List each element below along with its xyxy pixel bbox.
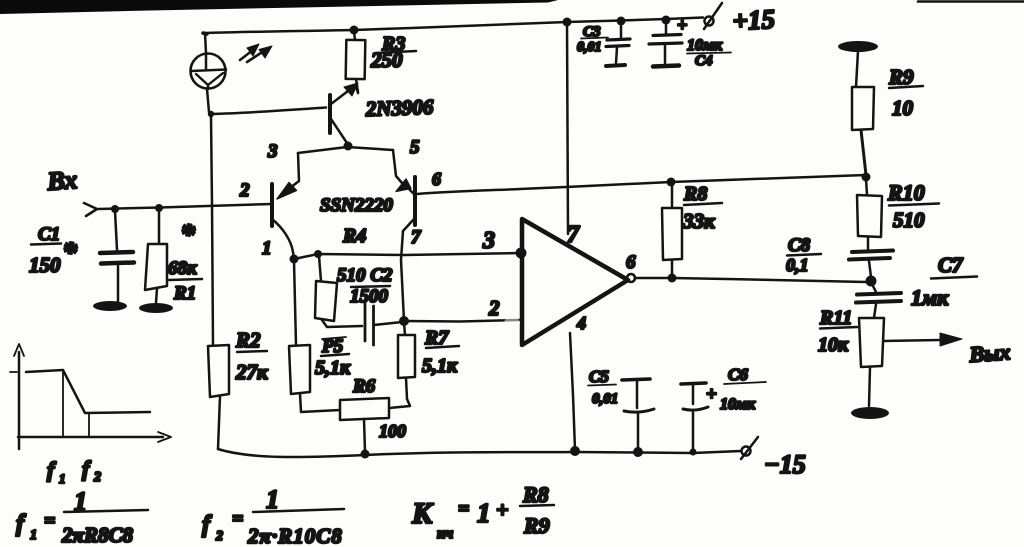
label R3 250 xyxy=(370,33,416,72)
op-amp U1 body xyxy=(522,219,628,345)
svg-text:3: 3 xyxy=(482,228,495,254)
capacitor C3 end bar xyxy=(606,65,625,66)
svg-text:7: 7 xyxy=(411,227,422,248)
svg-text:2: 2 xyxy=(239,180,250,201)
svg-text:−15: −15 xyxy=(764,450,806,479)
wire LED top stub xyxy=(205,33,206,53)
scan artifact top bar xyxy=(0,0,558,14)
node input-C1 xyxy=(111,205,119,213)
label R9 10 xyxy=(888,65,923,120)
capacitor C7 lead bottom xyxy=(874,304,876,318)
graph f2 marker xyxy=(88,413,90,437)
ground C1 xyxy=(93,301,127,311)
resistor R3 lead bottom xyxy=(356,79,358,92)
svg-text:510: 510 xyxy=(893,208,925,232)
svg-text:R11: R11 xyxy=(819,307,852,329)
resistor R4-510 body xyxy=(315,281,337,321)
node C6 xyxy=(690,449,697,456)
svg-text:f: f xyxy=(47,457,57,482)
resistor R8 bottom lead xyxy=(671,260,674,276)
LED light arrow 1 xyxy=(240,44,259,60)
svg-text:2: 2 xyxy=(93,470,101,485)
LED D1 cathode chord xyxy=(191,70,226,72)
svg-text:0,1: 0,1 xyxy=(786,255,809,275)
node C5 xyxy=(633,447,643,457)
wire C2 to node xyxy=(374,322,402,325)
svg-text:R4: R4 xyxy=(342,225,366,247)
svg-text:SSN2220: SSN2220 xyxy=(320,195,393,216)
svg-text:1: 1 xyxy=(30,528,37,543)
wire pin6 feedback line xyxy=(417,175,866,194)
label C7 1мк xyxy=(911,253,977,310)
wire SSM top box xyxy=(298,147,393,153)
svg-text:2N3906: 2N3906 xyxy=(364,95,434,121)
capacitor C4 lead xyxy=(665,22,668,34)
svg-text:150: 150 xyxy=(29,253,61,277)
capacitor C1 top lead xyxy=(115,211,117,250)
resistor R2 bottom lead xyxy=(218,396,220,449)
ground R11 xyxy=(851,407,889,419)
svg-text:+: + xyxy=(496,497,509,522)
capacitor C5 top plate xyxy=(622,379,650,380)
ground R1 xyxy=(139,303,173,313)
supply stub R9 xyxy=(838,41,878,52)
svg-text:+15: +15 xyxy=(732,4,776,36)
resistor R1 top lead xyxy=(158,210,161,244)
resistor R3 lead top xyxy=(354,32,355,40)
transistor Q1 2N3906 bar xyxy=(328,95,332,133)
svg-text:=: = xyxy=(44,510,55,532)
capacitor C8 plates xyxy=(849,251,893,260)
node emitter-left junction xyxy=(290,255,299,264)
capacitor C4 plates xyxy=(649,35,682,45)
resistor R5 bottom lead xyxy=(300,394,340,412)
node R3 top xyxy=(350,26,359,35)
svg-text:R8: R8 xyxy=(522,482,549,507)
svg-text:10мк: 10мк xyxy=(720,396,756,413)
svg-text:10: 10 xyxy=(892,96,914,120)
capacitor C6 bottom plate xyxy=(683,407,708,410)
label 510 C2 xyxy=(337,265,393,307)
svg-text:10мк: 10мк xyxy=(687,37,723,54)
wire LED junction to 2N3906 base xyxy=(211,108,326,115)
svg-text:С7: С7 xyxy=(938,253,964,277)
node feedback-R9-R10 xyxy=(862,173,871,182)
resistor R7 top lead xyxy=(404,323,405,335)
transistor Q1 collector xyxy=(331,119,347,143)
graph tick xyxy=(10,371,17,373)
svg-text:6: 6 xyxy=(626,252,636,273)
LED D1 circle xyxy=(191,54,226,89)
node top-left corner xyxy=(203,33,207,34)
svg-text:100: 100 xyxy=(379,421,406,441)
LED D1 inner lead xyxy=(206,53,208,89)
wire pin3 line to op-amp xyxy=(294,253,521,259)
svg-text:68к: 68к xyxy=(168,258,198,279)
transistor Q2b bar xyxy=(413,177,417,225)
formula f1 xyxy=(16,487,148,547)
resistor R9 top lead xyxy=(856,51,858,87)
label R7 5,1к xyxy=(422,327,459,377)
wire op-amp output xyxy=(635,278,866,282)
resistor R6 body xyxy=(340,398,389,420)
svg-text:2: 2 xyxy=(488,296,500,320)
svg-text:+: + xyxy=(677,15,687,35)
capacitor C3 lead xyxy=(620,23,623,39)
graph x-axis xyxy=(18,432,171,442)
transistor Q2a arrow xyxy=(277,183,297,200)
capacitor C5 stem xyxy=(636,381,639,408)
svg-text:К: К xyxy=(411,497,434,530)
svg-text:С8: С8 xyxy=(788,235,811,256)
resistor R7 body xyxy=(398,335,415,378)
svg-text:2: 2 xyxy=(215,529,223,544)
capacitor C4 tail xyxy=(664,45,667,63)
node output-R8 xyxy=(668,274,677,283)
capacitor C5 lead xyxy=(637,413,640,451)
svg-text:5,1к: 5,1к xyxy=(422,355,458,377)
svg-text:R10: R10 xyxy=(887,180,925,205)
svg-text:R6: R6 xyxy=(352,376,376,397)
svg-text:1500: 1500 xyxy=(350,286,389,307)
label R8 33к xyxy=(682,183,722,233)
svg-text:+: + xyxy=(706,384,717,405)
wire pin2 to op-amp xyxy=(404,320,519,322)
svg-text:R1: R1 xyxy=(173,283,196,304)
svg-text:R8: R8 xyxy=(683,183,707,205)
svg-text:4: 4 xyxy=(576,313,586,333)
label C8 0,1 xyxy=(786,235,821,275)
resistor R10 top lead xyxy=(866,179,867,195)
capacitor C1 bottom lead xyxy=(117,266,120,302)
resistor R2 body xyxy=(208,345,229,397)
label C1 150 xyxy=(29,224,78,277)
svg-text:1: 1 xyxy=(477,498,491,528)
label + C6 10мк xyxy=(706,365,766,413)
resistor R9 bottom lead xyxy=(861,130,866,175)
label 10мк C4 xyxy=(687,37,731,69)
wire bottom rail -15 xyxy=(218,449,741,457)
svg-text:0,01: 0,01 xyxy=(577,40,602,55)
transistor Q2b emitter down xyxy=(401,219,414,321)
svg-text:5: 5 xyxy=(410,137,420,158)
svg-text:6: 6 xyxy=(432,169,441,189)
transistor Q2a emitter down xyxy=(272,219,294,258)
svg-text:33к: 33к xyxy=(682,209,716,233)
terminal +15 xyxy=(704,3,722,29)
wire input xyxy=(98,204,271,209)
svg-text:5,1к: 5,1к xyxy=(315,357,351,379)
resistor R5 body xyxy=(289,345,310,394)
svg-text:С4: С4 xyxy=(695,53,713,69)
svg-text:Вых: Вых xyxy=(968,339,1012,367)
svg-text:С6: С6 xyxy=(728,365,748,384)
node pin4 bottom xyxy=(570,446,580,456)
node C2/R7/pin2 xyxy=(399,316,409,326)
wire output arrow xyxy=(884,333,962,346)
label R2 27к xyxy=(235,328,269,384)
resistor R9 body xyxy=(852,87,874,130)
resistor R6 bottom lead xyxy=(364,419,365,452)
label R10 510 xyxy=(887,180,939,232)
label C5 0,01 xyxy=(588,367,618,407)
wire pin4 vertical xyxy=(570,333,575,450)
graph y-axis xyxy=(14,344,24,449)
transistor Q2a bar xyxy=(270,184,274,226)
capacitor C7 lead top xyxy=(872,284,876,292)
transistor Q1 emitter with arrow xyxy=(331,83,358,104)
capacitor C7 plates xyxy=(856,293,901,303)
svg-text:f: f xyxy=(16,511,26,537)
svg-text:f: f xyxy=(82,456,92,481)
svg-text:27к: 27к xyxy=(235,360,269,384)
resistor R8 body xyxy=(662,208,682,260)
svg-text:нч: нч xyxy=(437,526,453,542)
node pin3 bold xyxy=(516,248,527,259)
svg-text:=: = xyxy=(458,498,469,520)
svg-text:=: = xyxy=(232,508,243,530)
node top rail pin7 xyxy=(563,18,572,27)
capacitor C1 plates xyxy=(100,252,134,264)
resistor R10 body xyxy=(857,195,882,237)
svg-text:1: 1 xyxy=(266,485,279,514)
resistor R4-510 top lead xyxy=(319,256,321,281)
svg-text:R9: R9 xyxy=(523,513,550,538)
node LED-base junction xyxy=(208,111,214,117)
terminal -15 xyxy=(741,437,758,459)
formula Knch xyxy=(411,482,554,542)
svg-text:2π·R10С8: 2π·R10С8 xyxy=(247,524,343,547)
wire SSM right collector riser xyxy=(393,150,414,194)
wire SSM left collector riser xyxy=(290,153,299,188)
resistor R1 bottom lead xyxy=(156,288,157,303)
svg-text:R2: R2 xyxy=(235,328,261,352)
capacitor C5 bottom plate xyxy=(624,409,654,412)
node output-C8-C7 xyxy=(866,276,877,287)
capacitor C4 end bar xyxy=(653,66,679,67)
svg-text:510 С2: 510 С2 xyxy=(337,265,393,286)
scan artifact thin line top right xyxy=(918,0,1024,3)
capacitor C3 node xyxy=(617,17,626,26)
svg-text:1: 1 xyxy=(262,238,272,259)
formula f2 xyxy=(202,485,344,547)
capacitor C3 tail xyxy=(616,47,617,63)
LED D1 triangle xyxy=(196,73,223,85)
scan fade patch near pin 2 xyxy=(504,317,520,329)
wire pin7 vertical xyxy=(567,23,568,234)
svg-text:Вх: Вх xyxy=(45,165,78,196)
wire top rail +15 xyxy=(205,18,703,34)
resistor R1 body xyxy=(145,244,167,290)
wire LED bottom lead xyxy=(207,89,209,112)
resistor R11 body xyxy=(859,318,884,367)
label f1 f2 xyxy=(47,456,101,486)
transistor Q2b arrow xyxy=(396,179,411,192)
capacitor C6 stem xyxy=(692,385,695,404)
capacitor C3 plates xyxy=(606,39,630,47)
graph curve xyxy=(26,370,150,413)
resistor R8 top lead xyxy=(671,184,674,208)
svg-text:С1: С1 xyxy=(38,224,60,245)
capacitor C8 lead xyxy=(869,261,871,277)
graph f1 marker xyxy=(62,370,64,437)
capacitor C2 plates xyxy=(365,302,374,345)
node R8 top xyxy=(667,178,676,187)
svg-text:3: 3 xyxy=(267,141,278,162)
op-amp output node circle xyxy=(627,274,635,282)
resistor R4-510 bottom lead to C2 xyxy=(322,320,362,327)
svg-text:10к: 10к xyxy=(818,334,849,356)
svg-text:*: * xyxy=(62,236,78,269)
resistor R10 bottom lead xyxy=(867,237,870,249)
svg-text:0,01: 0,01 xyxy=(592,391,618,407)
capacitor C6 lead xyxy=(692,411,695,452)
svg-text:R9: R9 xyxy=(888,65,914,89)
node SSM top center xyxy=(344,142,353,151)
capacitor C4 node xyxy=(662,16,671,25)
resistor R3 body xyxy=(346,40,366,79)
node input-R1 xyxy=(155,204,163,212)
resistor R11 bottom lead xyxy=(869,367,870,406)
svg-text:f: f xyxy=(202,512,212,538)
resistor R6 right lead to R7 xyxy=(389,378,410,408)
node R4-510 top xyxy=(314,250,322,258)
svg-text:2πR8C8: 2πR8C8 xyxy=(61,523,133,547)
label C3 0,01 xyxy=(577,24,608,55)
label R5 5,1к xyxy=(315,336,351,379)
LED light arrow 2 xyxy=(247,46,272,62)
capacitor C6 top plate xyxy=(681,383,706,384)
resistor R5 top lead xyxy=(294,261,296,345)
svg-text:*: * xyxy=(180,218,196,251)
svg-text:С5: С5 xyxy=(589,367,609,386)
svg-text:1: 1 xyxy=(59,471,66,486)
svg-text:1мк: 1мк xyxy=(911,285,949,310)
input arrow xyxy=(84,203,97,216)
node R6 bottom xyxy=(361,450,370,459)
svg-text:250: 250 xyxy=(370,48,403,72)
label R11 10к xyxy=(818,307,857,356)
label 68к R1 xyxy=(168,218,202,304)
wire vertical LED to R2 xyxy=(211,116,213,345)
